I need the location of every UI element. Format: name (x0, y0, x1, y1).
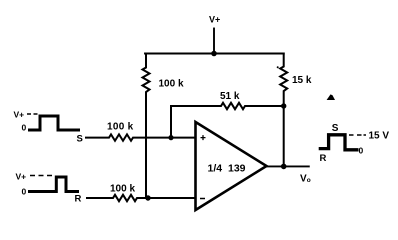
svg-text:100 k: 100 k (159, 79, 184, 90)
svg-text:R: R (320, 153, 327, 164)
svg-text:0: 0 (359, 146, 364, 156)
svg-text:V+: V+ (16, 172, 27, 182)
svg-text:R: R (75, 194, 82, 205)
svg-text:S: S (77, 134, 83, 145)
svg-text:0: 0 (22, 123, 27, 133)
svg-text:139: 139 (228, 163, 246, 175)
svg-text:15 V: 15 V (369, 131, 390, 142)
svg-text:V+: V+ (14, 110, 25, 120)
svg-text:15 k: 15 k (292, 75, 312, 86)
svg-text:V+: V+ (209, 15, 220, 25)
svg-text:o: o (307, 177, 311, 184)
svg-text:S: S (332, 123, 339, 134)
svg-text:0: 0 (22, 187, 27, 197)
svg-text:100 k: 100 k (110, 184, 135, 195)
svg-text:51 k: 51 k (220, 91, 240, 102)
svg-text:100 k: 100 k (107, 122, 134, 133)
svg-text:1/4: 1/4 (208, 163, 223, 175)
